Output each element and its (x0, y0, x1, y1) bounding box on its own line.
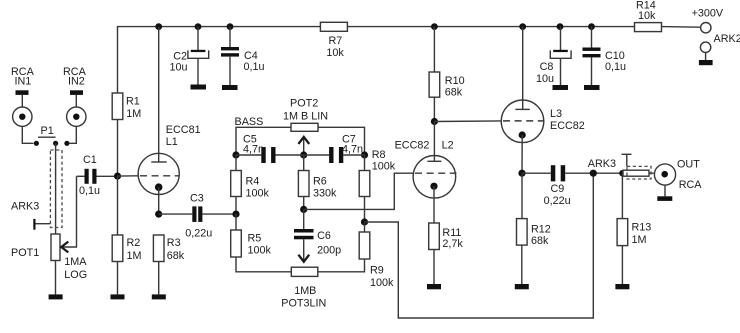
triode L3 ECC82 (501, 100, 544, 143)
node rail-L1 anode (155, 23, 162, 30)
triode L2 ECC82 (413, 156, 456, 199)
wire POT2 left end (236, 127, 291, 155)
shielded cable dashed (50, 150, 62, 228)
wire rail mid segment (347, 26, 634, 28)
wire POT2 right end (318, 127, 365, 155)
svg-text:L2: L2 (442, 139, 454, 151)
node rail-C8 (557, 23, 564, 30)
svg-text:4,7n: 4,7n (243, 144, 264, 156)
svg-text:4,7n: 4,7n (342, 144, 363, 156)
svg-text:L1: L1 (166, 136, 178, 148)
capacitor C1 (77, 175, 85, 177)
svg-text:R6: R6 (313, 176, 327, 188)
node rail-R10 (431, 23, 438, 30)
ground R13 (615, 284, 629, 289)
svg-text:ARK2: ARK2 (714, 33, 740, 45)
capacitor C4 (229, 27, 231, 47)
wire P1 common down (55, 143, 57, 234)
svg-text:RCA: RCA (679, 179, 703, 191)
resistor R14 (635, 23, 662, 32)
svg-text:L3: L3 (550, 108, 562, 120)
wiper POT3 arrow (303, 239, 305, 260)
wire feedback R8 node to bottom rail (365, 173, 594, 318)
svg-text:R4: R4 (246, 176, 260, 188)
resistor R11 (433, 186, 435, 223)
svg-text:0,1u: 0,1u (605, 61, 626, 73)
capacitor C5 (236, 154, 261, 156)
svg-text:P1: P1 (41, 125, 54, 137)
svg-text:R3: R3 (167, 237, 181, 249)
ground OUT RCA (657, 196, 672, 201)
resistor R3 (153, 235, 164, 262)
svg-text:C3: C3 (190, 193, 204, 205)
potentiometer POT1 (51, 234, 60, 261)
resistor R2 (117, 176, 119, 235)
wiper POT1 arrow (62, 176, 77, 247)
node C9/R13 (619, 170, 625, 176)
svg-text:0,22u: 0,22u (185, 227, 212, 239)
node C9/feedback (590, 170, 597, 177)
resistor R4 (235, 155, 237, 171)
node R4/R5/C3 (232, 211, 239, 218)
svg-text:1MA: 1MA (64, 256, 87, 268)
svg-text:IN1: IN1 (15, 76, 32, 88)
wire R9 to POT3 right (318, 259, 365, 272)
svg-text:ECC82: ECC82 (395, 140, 430, 152)
svg-text:C6: C6 (317, 230, 331, 242)
node R6/C6/grid-link (300, 206, 307, 213)
svg-text:10u: 10u (170, 62, 188, 74)
svg-text:200p: 200p (317, 245, 341, 257)
connector OUT RCA (654, 164, 675, 185)
svg-text:POT2: POT2 (290, 98, 318, 110)
svg-text:C9: C9 (551, 183, 565, 195)
node L3 cathode/R12/C9 (521, 135, 523, 173)
node tone right (361, 151, 368, 158)
potentiometer POT3 (291, 267, 318, 276)
svg-text:1M: 1M (632, 234, 647, 246)
wire RCA IN1 to P1 (22, 126, 33, 143)
svg-text:0,22u: 0,22u (544, 195, 571, 207)
svg-text:2,7k: 2,7k (442, 238, 463, 250)
svg-text:1M: 1M (127, 250, 142, 262)
svg-text:ECC81: ECC81 (166, 124, 201, 136)
svg-text:R7: R7 (329, 35, 343, 47)
resistor R10 (433, 27, 435, 72)
ground C2 (191, 85, 207, 90)
ground R2 (111, 294, 125, 299)
svg-text:68k: 68k (531, 235, 549, 247)
svg-text:0,1u: 0,1u (244, 61, 265, 73)
svg-text:100k: 100k (246, 188, 270, 200)
resistor R12 (521, 173, 523, 218)
svg-text:100k: 100k (370, 277, 394, 289)
svg-text:0,1u: 0,1u (79, 185, 100, 197)
ground ARK2 (699, 60, 713, 65)
svg-text:R1: R1 (126, 96, 140, 108)
svg-text:1M B LIN: 1M B LIN (283, 111, 328, 123)
wire top supply rail (118, 27, 321, 93)
svg-text:R12: R12 (531, 224, 551, 236)
node C1/R1/R2/grid (114, 173, 121, 180)
wire rail right segment to +300V (662, 26, 701, 29)
svg-text:100k: 100k (372, 160, 396, 172)
svg-text:10k: 10k (326, 47, 344, 59)
svg-text:BASS: BASS (235, 116, 264, 128)
resistor R1 (112, 93, 123, 120)
ground C4 (222, 85, 238, 90)
capacitor C8 electrolytic (560, 27, 562, 50)
capacitor C9 (522, 172, 551, 174)
capacitor C2 electrolytic (197, 27, 199, 50)
resistor R13 (621, 173, 623, 218)
svg-text:R10: R10 (445, 75, 465, 87)
svg-text:68k: 68k (167, 250, 185, 262)
resistor R9 (364, 222, 366, 232)
node L1 cathode/R3/C3 (155, 211, 162, 218)
svg-text:POT1: POT1 (11, 247, 39, 259)
ground R12 (515, 284, 529, 289)
ground R11 (427, 284, 441, 289)
triode L1 ECC81 (138, 153, 179, 194)
svg-text:IN2: IN2 (68, 76, 85, 88)
wire grid link R6 node to L2 grid (304, 173, 413, 209)
resistor R6 (303, 155, 305, 171)
capacitor C7 (304, 154, 329, 156)
svg-text:10u: 10u (536, 73, 554, 85)
svg-text:1M: 1M (126, 108, 141, 120)
resistor R5 (235, 214, 237, 230)
node R8/R9/feedback (361, 218, 368, 225)
svg-text:ARK3: ARK3 (588, 158, 616, 170)
node rail-C2 (195, 23, 202, 30)
svg-text:LOG: LOG (64, 269, 87, 281)
ground C10 (584, 85, 600, 90)
svg-text:POT3LIN: POT3LIN (281, 297, 326, 309)
wire R5 to POT3 left (236, 257, 291, 272)
svg-text:100k: 100k (248, 244, 272, 256)
svg-text:68k: 68k (445, 87, 463, 99)
resistor R7 (320, 22, 347, 31)
ground R3 (152, 294, 166, 299)
svg-text:+300V: +300V (692, 8, 724, 20)
svg-text:330k: 330k (313, 188, 337, 200)
svg-text:R9: R9 (370, 265, 384, 277)
svg-text:R5: R5 (248, 232, 262, 244)
capacitor C6 (303, 209, 305, 229)
wire L3 grid (434, 120, 501, 123)
svg-text:R2: R2 (127, 237, 141, 249)
terminal +300V (701, 23, 711, 33)
node tone mid (300, 151, 307, 158)
svg-text:R13: R13 (632, 222, 652, 234)
svg-text:R8: R8 (372, 149, 386, 161)
node rail-C10 (588, 23, 595, 30)
wiper POT2 arrow (303, 137, 305, 155)
node rail-L3 anode (519, 23, 526, 30)
capacitor C10 (591, 27, 593, 48)
wire RCA IN2 to P1 (70, 126, 77, 143)
wire node to L1 grid (118, 175, 139, 177)
node rail-C4 (227, 23, 234, 30)
ground C8 (553, 85, 569, 90)
svg-text:ARK3: ARK3 (11, 201, 39, 213)
svg-text:1MB: 1MB (294, 285, 316, 297)
svg-text:C8: C8 (540, 61, 554, 73)
node L2 anode/R10/L3 grid (431, 118, 438, 125)
capacitor C3 (159, 213, 193, 215)
svg-text:C1: C1 (83, 154, 97, 166)
wire POT1 to ground (55, 261, 57, 295)
resistor R8 (364, 155, 366, 171)
node tone left (232, 151, 239, 158)
svg-text:10k: 10k (638, 10, 656, 22)
svg-text:ECC82: ECC82 (550, 120, 585, 132)
svg-text:OUT: OUT (677, 159, 700, 171)
ground POT1 (49, 294, 63, 299)
